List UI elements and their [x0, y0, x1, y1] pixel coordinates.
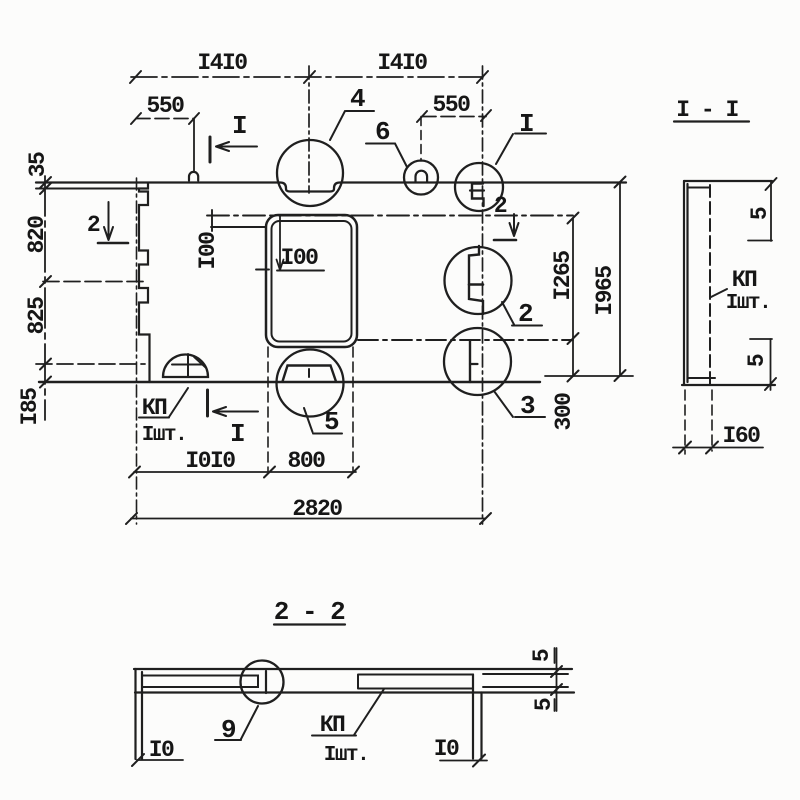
detail circle 4	[277, 140, 343, 206]
tick 2820 a	[126, 513, 137, 524]
detail circle 1	[455, 163, 503, 211]
svg-text:I0: I0	[434, 736, 459, 762]
2-2 mid channel rect	[358, 675, 473, 689]
2-2 dim 10 left line	[137, 759, 183, 761]
100 dim arrow inside window	[279, 216, 281, 270]
2-2 left leg outer	[134, 669, 136, 759]
svg-text:2: 2	[494, 193, 507, 219]
1-1 dim 160 extension right	[711, 390, 713, 451]
svg-text:Iшт.: Iшт.	[142, 424, 186, 447]
1-1 dim 5 top end bar	[748, 240, 772, 242]
1-1 dim 160 slash a	[679, 442, 691, 454]
svg-text:I4I0: I4I0	[377, 50, 427, 76]
tick 550L a	[131, 113, 141, 124]
header 2-2 underline	[274, 623, 345, 625]
label KP plan leader	[169, 388, 188, 417]
tick 185	[40, 377, 51, 388]
tick 35 b	[40, 183, 51, 194]
2-2 left channel rect	[142, 676, 258, 688]
2-2 slab top line	[134, 668, 572, 670]
joint shape inside circle 1	[472, 184, 484, 207]
svg-text:820: 820	[24, 216, 50, 254]
1-1 dim 160 line and underline	[673, 447, 763, 449]
ventilation dome half-circle with cross	[163, 355, 208, 378]
extension from 550R down to circle 6	[420, 117, 422, 162]
sill tick inside circle 5	[308, 369, 310, 377]
1-1 channel bottom	[688, 377, 715, 379]
svg-text:5: 5	[324, 407, 339, 437]
svg-text:I60: I60	[723, 423, 761, 449]
dim line 550 left	[136, 118, 194, 120]
1-1 dim 5 bottom end bar	[750, 338, 772, 340]
section marker I top: arrow	[216, 142, 257, 151]
2-2 right leg outer	[472, 675, 474, 759]
label 6 underline	[366, 143, 395, 145]
svg-text:Iшт.: Iшт.	[726, 292, 770, 315]
svg-text:КП: КП	[142, 395, 167, 421]
1-1 right joint face dashed	[709, 185, 711, 385]
label 2 underline	[512, 325, 542, 327]
label 4 leader	[330, 111, 345, 140]
detail circle 3	[444, 328, 511, 395]
top edge of panel (with recess at detail 4)	[36, 183, 626, 192]
left edge dash-dot centerline	[136, 178, 138, 524]
tick 550R a	[417, 111, 427, 122]
label 1 underline	[515, 133, 546, 135]
tick 2820 b	[480, 513, 491, 524]
label 5 underline	[313, 433, 342, 435]
window right extension line down	[352, 347, 354, 472]
label 2 leader	[502, 302, 514, 325]
window left extension line down	[267, 347, 269, 472]
lifting loop inside circle 6	[416, 171, 428, 182]
1-1 bottom edge	[682, 384, 775, 386]
label 3 leader	[494, 391, 513, 417]
section marker I top: bar	[209, 137, 212, 162]
extension from 550L down to loop	[193, 119, 195, 173]
svg-text:КП: КП	[732, 267, 757, 293]
label 9 underline	[215, 739, 241, 741]
detail circle 6	[404, 161, 438, 195]
svg-text:I00: I00	[195, 232, 221, 270]
2-2 dim 5 slash a	[551, 666, 562, 677]
svg-text:I85: I85	[17, 388, 43, 426]
2-2 right inner pair bottom	[483, 686, 568, 688]
2-2 right inner pair top	[483, 673, 568, 675]
2-2 dim 10 left slash	[132, 754, 144, 766]
1-1 top edge	[684, 180, 772, 182]
joint shape inside circle 2	[469, 246, 483, 314]
detail circle 2	[445, 247, 512, 314]
1-1 dim 160 extension left	[684, 390, 686, 454]
label 9 leader	[241, 706, 258, 739]
bottom edge right extension	[545, 375, 633, 377]
2-2 dim 5 slash b	[551, 684, 562, 695]
svg-text:I00: I00	[281, 245, 319, 271]
svg-text:5: 5	[529, 649, 555, 662]
1-1 dim 5 bottom slash	[765, 378, 776, 390]
svg-text:I0: I0	[149, 737, 174, 763]
100 left tick	[256, 269, 269, 271]
svg-text:I4I0: I4I0	[197, 50, 247, 76]
2-2 right leg inner	[480, 693, 482, 759]
window opening inner rounded rect	[272, 221, 352, 342]
label 1 leader	[496, 134, 513, 164]
svg-text:I: I	[519, 109, 533, 139]
2-2 left leg inner	[141, 672, 143, 759]
sill shape inside circle 5	[283, 366, 337, 382]
tick 800 b	[348, 467, 359, 478]
section marker I bottom: bar	[206, 390, 209, 416]
svg-text:2 - 2: 2 - 2	[274, 597, 345, 627]
horizontal extension y=364 left	[36, 363, 145, 365]
2-2 dim 5/5 vertical line	[556, 648, 558, 711]
detail circle 5	[277, 350, 344, 417]
joint middle tick circle 3	[470, 363, 478, 365]
window opening outer rounded rect	[266, 215, 357, 347]
header I-I underline	[674, 120, 749, 122]
tick 550L b	[189, 113, 199, 124]
2-2 KP leader	[354, 689, 384, 735]
bottom dim line 1010/800	[134, 471, 356, 473]
section marker 2 right: arrow down	[510, 214, 519, 236]
svg-text:6: 6	[375, 117, 390, 147]
tick 1010 a	[129, 467, 140, 478]
inner horizontal line y=216 (window top extension)	[207, 215, 573, 217]
svg-text:I265: I265	[550, 251, 576, 301]
svg-text:2: 2	[518, 299, 533, 329]
svg-text:825: 825	[24, 297, 50, 335]
svg-text:I0I0: I0I0	[185, 448, 235, 474]
svg-text:2820: 2820	[292, 496, 342, 522]
tick mid 1410	[304, 71, 315, 83]
bottom edge of panel	[39, 381, 540, 383]
horizontal extension y=281.5 left	[43, 281, 148, 283]
label KP plan underline	[139, 417, 169, 419]
tick 820	[40, 276, 51, 287]
left jagged edge of panel	[139, 183, 150, 382]
joint vertical inside circle 9	[265, 671, 267, 693]
lifting loop on top edge at x=193	[189, 172, 198, 181]
tick 1965 a	[615, 177, 626, 188]
tick 35 a	[40, 177, 51, 188]
svg-text:800: 800	[288, 448, 326, 474]
tick 825	[40, 359, 51, 370]
svg-text:550: 550	[147, 93, 185, 119]
100 underline	[277, 270, 324, 272]
section marker I bottom: arrow	[213, 407, 258, 416]
svg-text:Iшт.: Iшт.	[324, 744, 368, 767]
svg-text:35: 35	[25, 152, 51, 177]
svg-text:КП: КП	[320, 712, 345, 738]
joint middle tick circle 2	[469, 283, 483, 286]
left dim line column x=45	[44, 176, 46, 420]
label 4 underline	[346, 110, 374, 112]
svg-text:5: 5	[531, 698, 557, 711]
1-1 outer left edge double	[684, 181, 688, 385]
svg-text:300: 300	[551, 393, 577, 431]
tick 1265 a	[568, 213, 579, 224]
tick 1010/800 mid	[264, 467, 275, 478]
2-2 slab bottom line	[135, 691, 574, 693]
svg-text:5: 5	[747, 207, 773, 220]
label 6 leader	[395, 144, 407, 167]
right dim line 1965 x=620	[619, 182, 621, 376]
1-1 KP leader	[710, 289, 727, 298]
svg-text:I: I	[232, 111, 246, 141]
bottom dim line 2820	[131, 518, 485, 520]
1-1 channel top	[688, 187, 711, 189]
2-2 KP underline	[312, 735, 356, 737]
dome diagonal shade	[194, 357, 206, 368]
dome cross horizontal	[172, 364, 203, 366]
section marker 2 left: bar	[98, 242, 128, 245]
2-2 dim 10 right line	[440, 760, 487, 762]
tick 1265 b	[568, 333, 579, 344]
horizontal dash-dot line y=340	[358, 339, 573, 341]
section marker 2 left: arrow down	[104, 202, 113, 240]
2-2 dim 10 right slash	[473, 755, 485, 767]
100 arrowhead down	[277, 260, 284, 271]
1-1 dim 5 bottom line	[770, 339, 772, 390]
tick right 1410	[477, 71, 488, 83]
tick 300 b	[568, 371, 579, 382]
svg-text:I: I	[230, 419, 244, 449]
label 3 underline	[515, 416, 545, 418]
joint vertical inside circle 3	[469, 341, 471, 382]
vertical centerline circle 4	[308, 66, 310, 193]
top dimension line 1410+1410	[131, 76, 483, 78]
2-2 dim 5 top bar	[554, 648, 556, 663]
svg-text:4: 4	[350, 84, 365, 114]
vertical tick of 100 dim at x=212	[211, 210, 213, 231]
joint middle tick circle 1	[470, 189, 484, 191]
tick 550R b	[481, 110, 491, 121]
2-2 dim 5 bottom bar	[554, 699, 556, 711]
label 5 leader	[304, 408, 313, 432]
svg-text:9: 9	[221, 715, 236, 745]
top edge lower parallel line (35 gap)	[36, 188, 139, 190]
svg-text:I965: I965	[592, 266, 618, 316]
section marker 2 right: bar	[494, 239, 516, 242]
right dim line 1265/300 x=573	[572, 218, 574, 376]
dome cross vertical	[187, 354, 189, 377]
short line y=227 (100 dim)	[211, 226, 266, 228]
dim line 550 right	[422, 116, 486, 118]
1-1 dim 5 top line	[770, 181, 772, 241]
svg-text:3: 3	[520, 391, 535, 421]
svg-text:550: 550	[433, 92, 471, 118]
tick left 1410	[130, 71, 141, 83]
tick 1965 b	[615, 370, 626, 381]
vertical centerline through circles 1-2-3	[482, 66, 484, 524]
detail circle 9	[241, 661, 284, 704]
svg-text:2: 2	[87, 212, 100, 238]
svg-text:5: 5	[744, 354, 770, 367]
1-1 dim 5 top slash	[766, 178, 777, 190]
1-1 dim 160 slash b	[706, 442, 718, 454]
svg-text:I - I: I - I	[676, 97, 738, 123]
